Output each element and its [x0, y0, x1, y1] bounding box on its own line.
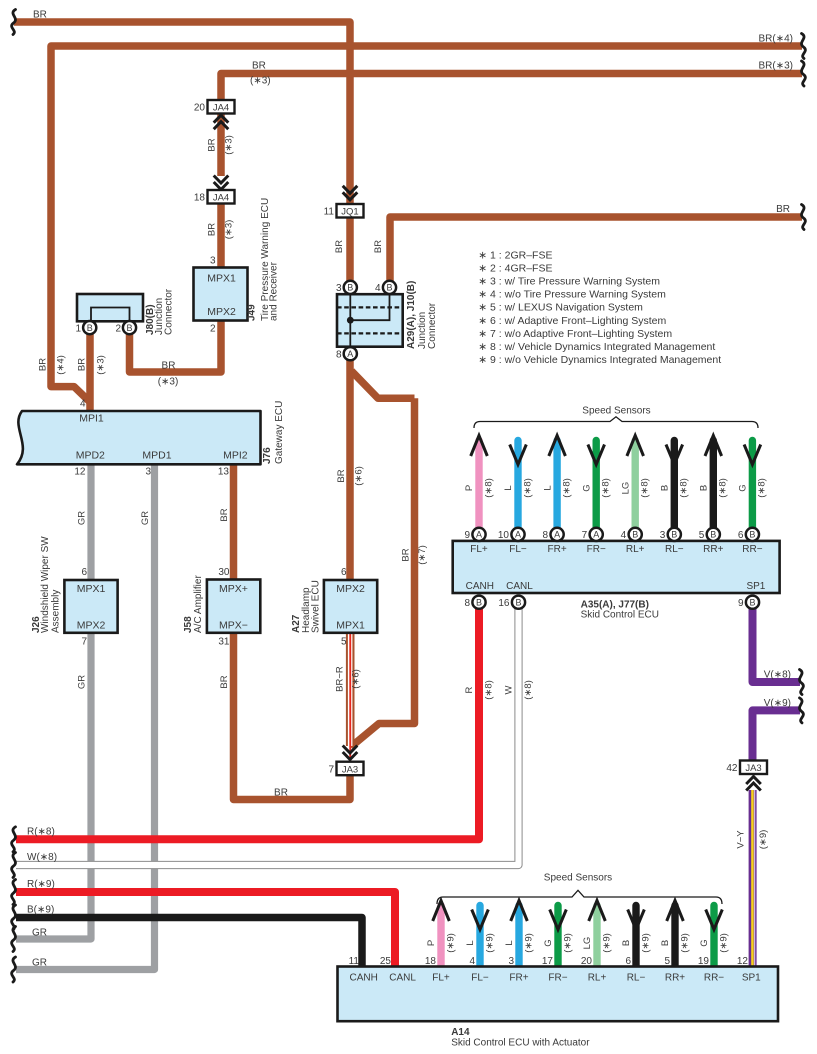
svg-text:Skid Control ECU with Actuator: Skid Control ECU with Actuator — [451, 1037, 590, 1048]
svg-text:(∗9): (∗9) — [640, 933, 651, 953]
svg-text:MPX2: MPX2 — [207, 306, 236, 318]
svg-text:CANL: CANL — [506, 581, 533, 592]
svg-text:B: B — [621, 940, 632, 946]
pin 16(B) CANL of A35 — [512, 596, 525, 609]
junction connector JA4 pin 20 — [194, 100, 235, 114]
ECU A35(A), J77(B) Skid Control ECU box — [453, 541, 780, 593]
svg-text:J76: J76 — [262, 447, 273, 464]
svg-text:R: R — [464, 686, 475, 693]
svg-text:BR: BR — [776, 204, 790, 215]
break symbol BR right — [801, 205, 805, 230]
svg-text:(∗8): (∗8) — [484, 680, 495, 700]
svg-text:JA3: JA3 — [745, 763, 761, 774]
svg-text:(∗3): (∗3) — [96, 355, 107, 375]
svg-text:∗ 1 : 2GR–FSE: ∗ 1 : 2GR–FSE — [478, 249, 552, 261]
break symbol BR top left — [12, 10, 16, 35]
svg-text:GR: GR — [32, 928, 47, 939]
pin 7(A) FR&#8722; of A35 — [590, 528, 603, 541]
speed sensor wire L(*8) FL&#8722; upper — [514, 441, 521, 529]
svg-text:(∗6): (∗6) — [354, 466, 365, 486]
svg-text:8: 8 — [464, 598, 470, 609]
junction connector A29(A), J10(B) — [337, 294, 403, 347]
svg-text:∗ 8 : w/ Vehicle Dynamics Inte: ∗ 8 : w/ Vehicle Dynamics Integrated Man… — [478, 341, 715, 353]
svg-text:(∗9): (∗9) — [601, 933, 612, 953]
svg-text:8: 8 — [336, 349, 342, 360]
svg-text:18: 18 — [425, 956, 437, 967]
svg-text:7: 7 — [81, 636, 87, 647]
wire GR J26-7 down to left break — [16, 632, 91, 939]
svg-text:FL+: FL+ — [470, 544, 488, 555]
pin 9(A) FL+ of A35 — [472, 528, 485, 541]
arrow into JA4-20 — [214, 115, 229, 129]
svg-text:BR: BR — [274, 788, 288, 799]
svg-text:4: 4 — [375, 283, 381, 294]
svg-text:JA3: JA3 — [342, 764, 358, 775]
svg-text:CANH: CANH — [350, 972, 378, 983]
pin 3(B) of A29 — [344, 281, 357, 294]
svg-text:B: B — [126, 323, 132, 333]
svg-text:(∗3): (∗3) — [224, 135, 235, 155]
svg-text:(∗6): (∗6) — [351, 669, 362, 689]
svg-text:(∗4): (∗4) — [56, 355, 67, 375]
svg-text:(∗8): (∗8) — [523, 680, 534, 700]
svg-text:30: 30 — [218, 567, 230, 578]
speed sensor wire B(*9) RR+ lower — [671, 906, 678, 968]
svg-text:P: P — [426, 940, 437, 946]
wire BR J76 MPI2-13 to J58 MPX+30 — [230, 463, 238, 580]
svg-text:1: 1 — [75, 323, 81, 334]
svg-text:18: 18 — [194, 193, 206, 204]
svg-text:∗ 7 : w/o Adaptive Front–Light: ∗ 7 : w/o Adaptive Front–Lighting System — [478, 328, 672, 340]
wire BR(*6) A29 pin 8A to A27 MPX2-6 — [346, 358, 354, 581]
svg-text:17: 17 — [542, 956, 554, 967]
wire V(*8) A35 SP1-9B to right break — [753, 608, 801, 682]
svg-text:(∗8): (∗8) — [561, 478, 572, 498]
svg-text:B: B — [476, 597, 482, 607]
svg-text:B: B — [699, 485, 710, 491]
svg-text:(∗3): (∗3) — [250, 76, 271, 87]
svg-text:(∗7): (∗7) — [417, 545, 428, 565]
svg-text:A: A — [476, 530, 482, 540]
svg-text:20: 20 — [581, 956, 593, 967]
svg-text:BR: BR — [334, 240, 345, 253]
svg-text:9: 9 — [738, 598, 744, 609]
svg-text:(∗9): (∗9) — [445, 933, 456, 953]
svg-text:MPX1: MPX1 — [207, 273, 236, 285]
junction connector JA4 pin 18 — [194, 190, 235, 204]
svg-text:BR: BR — [33, 10, 47, 21]
svg-text:∗ 9 : w/o Vehicle Dynamics Int: ∗ 9 : w/o Vehicle Dynamics Integrated Ma… — [478, 354, 721, 366]
speed sensor wire B(*8) RL&#8722; upper — [671, 441, 678, 529]
svg-text:16: 16 — [498, 598, 510, 609]
speed sensor wire G(*8) FR&#8722; upper — [593, 441, 600, 529]
svg-text:MPI1: MPI1 — [79, 413, 104, 425]
wire BR(*7) branch diagonal — [352, 371, 415, 398]
wire BR J80-1B to J76 MPI1-4 — [86, 333, 94, 412]
svg-text:Speed Sensors: Speed Sensors — [582, 406, 650, 417]
wire R(*8) A35 CANH-8B to left break — [16, 608, 479, 839]
svg-text:MPX+: MPX+ — [219, 583, 248, 595]
wire GR MPD1 J76-3 down to left break — [16, 463, 155, 970]
pin 8(A) of A29 — [344, 347, 357, 360]
break symbol BR(*3) right — [801, 61, 805, 86]
pin 8(A) FR+ of A35 — [551, 528, 564, 541]
svg-text:2: 2 — [210, 323, 216, 334]
break symbol W(*8) left — [12, 853, 16, 878]
svg-text:∗ 6 : w/ Adaptive Front–Lighti: ∗ 6 : w/ Adaptive Front–Lighting System — [478, 315, 666, 327]
svg-text:BR−R: BR−R — [335, 666, 346, 692]
svg-text:BR: BR — [77, 358, 88, 371]
pin 9(B) SP1 of A35 — [746, 596, 759, 609]
svg-text:MPX1: MPX1 — [77, 583, 106, 595]
svg-text:Swivel ECU: Swivel ECU — [310, 580, 321, 633]
svg-text:RR−: RR− — [704, 972, 724, 983]
svg-text:L: L — [504, 940, 515, 945]
svg-text:13: 13 — [218, 466, 230, 477]
svg-text:B: B — [710, 530, 716, 540]
break symbol R(*9) left — [12, 880, 16, 905]
svg-text:V(∗8): V(∗8) — [764, 670, 791, 681]
svg-text:(∗8): (∗8) — [679, 478, 690, 498]
svg-text:A29(A), J10(B): A29(A), J10(B) — [406, 281, 417, 349]
svg-text:11: 11 — [349, 956, 360, 967]
wire BR(*3) J49 MPX2-2 to J80-2B — [130, 319, 222, 372]
junction connector JA3 pin 7 — [328, 762, 363, 776]
wire V-Y(*9) JA3-42 to A14 SP1-12 — [749, 790, 757, 968]
speed sensor wire L(*9) FL&#8722; lower — [476, 906, 483, 968]
svg-text:∗ 2 : 4GR–FSE: ∗ 2 : 4GR–FSE — [478, 262, 552, 274]
wire BR right break to A29 pin 4B — [390, 217, 802, 282]
svg-text:B: B — [749, 597, 755, 607]
svg-text:BR: BR — [162, 361, 176, 372]
svg-text:CANH: CANH — [466, 581, 494, 592]
svg-text:CANL: CANL — [389, 972, 416, 983]
svg-text:SP1: SP1 — [746, 581, 765, 592]
break symbol V(*9) right — [799, 698, 803, 723]
svg-text:5: 5 — [341, 636, 347, 647]
svg-text:GR: GR — [140, 511, 151, 525]
wire R(*9) left break to A14 CANL-25 — [16, 892, 395, 968]
svg-text:JA4: JA4 — [213, 103, 229, 114]
svg-text:BR: BR — [207, 138, 218, 151]
svg-text:MPX−: MPX− — [219, 619, 248, 631]
pin 10(A) FL&#8722; of A35 — [511, 528, 524, 541]
arrow into JQ1-11 — [343, 186, 358, 200]
pin 5(B) RR+ of A35 — [707, 528, 720, 541]
svg-text:BR: BR — [207, 223, 218, 236]
wire BR(*3) JA4-18 to J49 MPX1-3 — [217, 202, 225, 268]
break symbol GR left 2 — [12, 957, 16, 982]
svg-text:Speed Sensors: Speed Sensors — [544, 873, 612, 884]
svg-text:6: 6 — [81, 567, 87, 578]
svg-text:3: 3 — [210, 256, 216, 267]
break symbol R(*8) left — [12, 827, 16, 852]
arrow into JA4-18 — [214, 176, 229, 190]
pin 4(B) of A29 — [383, 281, 396, 294]
svg-text:9: 9 — [464, 530, 470, 541]
svg-text:FL−: FL− — [509, 544, 527, 555]
svg-text:31: 31 — [218, 636, 230, 647]
svg-text:11: 11 — [324, 207, 335, 218]
svg-text:B: B — [671, 530, 677, 540]
wire BR JQ1 to A29 pin 3B — [346, 213, 354, 282]
svg-text:Connector: Connector — [164, 288, 175, 335]
svg-text:7: 7 — [582, 530, 588, 541]
svg-text:B: B — [660, 485, 671, 491]
internal links of A29 — [337, 294, 403, 347]
svg-text:12: 12 — [737, 956, 749, 967]
svg-text:RL+: RL+ — [588, 972, 607, 983]
svg-text:BR: BR — [336, 469, 347, 482]
svg-text:BR: BR — [219, 508, 230, 521]
ECU J49 Tire Pressure Warning ECU and Receiver — [194, 268, 248, 321]
svg-text:MPD1: MPD1 — [142, 449, 171, 461]
ECU J26 Windshield Wiper SW Assembly — [64, 580, 117, 633]
svg-text:A: A — [347, 349, 353, 359]
pin 2(B) of J80(B) — [123, 321, 136, 334]
svg-text:5: 5 — [699, 530, 705, 541]
speed sensor wire G(*8) RR&#8722; upper — [749, 441, 756, 529]
svg-text:V(∗9): V(∗9) — [764, 698, 791, 709]
pin 8(B) CANH of A35 — [472, 596, 485, 609]
ECU J76 Gateway ECU box — [17, 411, 261, 464]
svg-text:RR+: RR+ — [665, 972, 685, 983]
svg-text:(∗9): (∗9) — [484, 933, 495, 953]
svg-text:Connector: Connector — [427, 302, 438, 349]
svg-text:B: B — [749, 530, 755, 540]
svg-text:3: 3 — [508, 956, 514, 967]
svg-text:LG: LG — [620, 482, 631, 495]
svg-text:FR+: FR+ — [509, 972, 528, 983]
pin 6(B) RR&#8722; of A35 — [746, 528, 759, 541]
svg-text:B: B — [386, 283, 392, 293]
svg-text:2: 2 — [115, 323, 121, 334]
svg-text:(∗3): (∗3) — [158, 377, 179, 388]
svg-text:FL−: FL− — [471, 972, 489, 983]
svg-text:4: 4 — [621, 530, 627, 541]
svg-text:and Receiver: and Receiver — [269, 261, 280, 321]
svg-text:(∗8): (∗8) — [757, 478, 768, 498]
svg-text:L: L — [465, 940, 476, 945]
brace speed sensors upper — [474, 417, 758, 428]
svg-text:6: 6 — [625, 956, 631, 967]
svg-text:B: B — [515, 597, 521, 607]
svg-text:W: W — [504, 685, 515, 694]
svg-text:LG: LG — [582, 937, 593, 950]
svg-text:P: P — [464, 485, 475, 491]
svg-text:A: A — [593, 530, 599, 540]
pin 4(B) RL+ of A35 — [629, 528, 642, 541]
wire B(*9) left break to A14 CANH-11 — [16, 918, 362, 969]
speed sensor wire P(*9) FL+ lower — [437, 906, 444, 968]
svg-text:42: 42 — [726, 763, 738, 774]
svg-text:L: L — [542, 485, 553, 490]
svg-text:FR−: FR− — [587, 544, 606, 555]
svg-text:L: L — [503, 485, 514, 490]
ECU J58 A/C Amplifier — [207, 580, 260, 633]
svg-text:8: 8 — [543, 530, 549, 541]
wire BR(*3) between JA4-20 and JA4-18 — [217, 112, 225, 176]
svg-text:JQ1: JQ1 — [341, 207, 358, 218]
svg-text:W(∗8): W(∗8) — [27, 852, 57, 863]
svg-text:V−Y: V−Y — [736, 830, 747, 849]
brace speed sensors lower — [437, 890, 722, 904]
svg-text:B: B — [87, 323, 93, 333]
svg-text:MPX1: MPX1 — [336, 619, 365, 631]
svg-text:Assembly: Assembly — [50, 590, 61, 633]
svg-text:(∗3): (∗3) — [224, 220, 235, 240]
speed sensor wire B(*8) RR+ upper — [710, 441, 717, 529]
svg-text:BR: BR — [401, 548, 412, 561]
svg-text:6: 6 — [738, 530, 744, 541]
svg-text:G: G — [543, 939, 554, 946]
wire BR top from left break to JQ1-11 — [14, 22, 350, 203]
speed sensor wire P(*8) FL+ upper — [475, 441, 482, 529]
svg-text:RL−: RL− — [665, 544, 684, 555]
svg-text:(∗8): (∗8) — [601, 478, 612, 498]
svg-text:BR: BR — [219, 675, 230, 688]
svg-text:6: 6 — [341, 567, 347, 578]
svg-text:Gateway ECU: Gateway ECU — [274, 401, 285, 464]
svg-text:Skid Control ECU: Skid Control ECU — [581, 609, 659, 620]
svg-text:RR+: RR+ — [703, 544, 723, 555]
svg-text:BR: BR — [38, 358, 49, 371]
svg-text:∗ 3 : w/ Tire Pressure Warning: ∗ 3 : w/ Tire Pressure Warning System — [478, 276, 660, 288]
svg-text:∗ 5 : w/ LEXUS Navigation Syst: ∗ 5 : w/ LEXUS Navigation System — [478, 302, 643, 314]
svg-text:GR: GR — [77, 675, 88, 689]
svg-text:RL+: RL+ — [626, 544, 645, 555]
svg-text:(∗8): (∗8) — [718, 478, 729, 498]
svg-text:G: G — [581, 484, 592, 491]
svg-text:FR+: FR+ — [548, 544, 567, 555]
svg-text:FR−: FR− — [548, 972, 567, 983]
svg-text:19: 19 — [698, 956, 710, 967]
svg-text:3: 3 — [336, 283, 342, 294]
svg-text:R(∗9): R(∗9) — [27, 879, 55, 890]
speed sensor wire G(*9) RR&#8722; lower — [710, 906, 717, 968]
svg-text:RL−: RL− — [627, 972, 646, 983]
svg-text:(∗8): (∗8) — [640, 478, 651, 498]
svg-text:BR(∗3): BR(∗3) — [759, 61, 794, 72]
svg-text:B: B — [347, 283, 353, 293]
svg-text:G: G — [699, 939, 710, 946]
svg-text:(∗9): (∗9) — [562, 933, 573, 953]
svg-text:B: B — [660, 940, 671, 946]
svg-text:20: 20 — [194, 103, 206, 114]
wire W(*8) A35 CANL-16B to left break — [16, 608, 519, 865]
speed sensor wire LG(*8) RL+ upper — [632, 441, 639, 529]
arrow into JA3-7 — [343, 746, 358, 760]
wire BR J58 MPX-31 to JA3-7 bottom — [234, 632, 351, 800]
svg-text:4: 4 — [469, 956, 475, 967]
svg-text:7: 7 — [328, 764, 334, 775]
svg-text:MPX2: MPX2 — [336, 583, 365, 595]
junction connector JQ1 pin 11 — [324, 204, 364, 218]
svg-text:MPI2: MPI2 — [223, 449, 248, 461]
svg-text:GR: GR — [32, 958, 47, 969]
ECU A14 Skid Control ECU with Actuator box — [338, 967, 779, 1022]
svg-text:A/C Amplifier: A/C Amplifier — [193, 575, 204, 633]
break symbol V(*8) right — [799, 670, 803, 695]
svg-text:10: 10 — [498, 530, 510, 541]
speed sensor wire G(*9) FR&#8722; lower — [554, 906, 561, 968]
svg-text:BR(∗4): BR(∗4) — [759, 34, 794, 45]
busbar inside J80(B) — [91, 308, 130, 322]
svg-text:(∗9): (∗9) — [758, 830, 769, 850]
svg-text:A: A — [515, 530, 521, 540]
svg-text:12: 12 — [74, 466, 86, 477]
break symbol BR(*4) right — [801, 34, 805, 59]
speed sensor wire L(*9) FR+ lower — [515, 906, 522, 968]
svg-text:BR: BR — [373, 240, 384, 253]
svg-text:(∗8): (∗8) — [483, 478, 494, 498]
svg-text:MPD2: MPD2 — [76, 449, 105, 461]
svg-text:G: G — [738, 484, 749, 491]
svg-text:∗ 4 : w/o Tire Pressure Warnin: ∗ 4 : w/o Tire Pressure Warning System — [478, 289, 666, 301]
svg-text:(∗9): (∗9) — [679, 933, 690, 953]
svg-text:JA4: JA4 — [213, 193, 229, 204]
wire V(*9) right break to JA3-42 — [753, 710, 801, 761]
svg-text:MPX2: MPX2 — [77, 619, 106, 631]
svg-text:A: A — [554, 530, 560, 540]
svg-text:(∗9): (∗9) — [718, 933, 729, 953]
svg-text:5: 5 — [664, 956, 670, 967]
svg-text:BR: BR — [252, 61, 266, 72]
wire BR(*3) right break to JA4-20 — [221, 74, 802, 102]
svg-text:(∗9): (∗9) — [523, 933, 534, 953]
svg-text:4: 4 — [80, 398, 86, 409]
svg-text:B(∗9): B(∗9) — [27, 905, 54, 916]
wire BR-R(*6) A27 MPX1-5 to JA3-7 — [346, 632, 355, 761]
wire GR MPD2 J76-12 to J26-6 — [87, 463, 94, 580]
wire BR(*7) down to JA3-7 — [351, 398, 415, 747]
svg-text:SP1: SP1 — [742, 972, 761, 983]
svg-text:R(∗8): R(∗8) — [27, 826, 55, 837]
svg-text:(∗8): (∗8) — [522, 478, 533, 498]
junction connector J80(B) — [77, 294, 143, 321]
junction connector JA3 pin 42 — [726, 761, 767, 775]
speed sensor wire B(*9) RL&#8722; lower — [632, 906, 639, 968]
svg-text:J49: J49 — [247, 304, 258, 321]
svg-text:RR−: RR− — [742, 544, 762, 555]
speed sensor wire LG(*9) RL+ lower — [593, 906, 600, 968]
ECU A27 Headlamp Swivel ECU — [324, 580, 377, 633]
pin 3(B) RL&#8722; of A35 — [668, 528, 681, 541]
arrow out of JA3-42 — [746, 777, 761, 791]
svg-text:25: 25 — [380, 956, 392, 967]
svg-text:B: B — [632, 530, 638, 540]
wire BR(*4) right break to J76 MPI1-4 merge — [51, 46, 802, 402]
break symbol B(*9) left — [12, 905, 16, 930]
svg-text:3: 3 — [145, 466, 151, 477]
svg-text:FL+: FL+ — [432, 972, 450, 983]
pin 1(B) of J80(B) — [83, 321, 96, 334]
speed sensor wire L(*8) FR+ upper — [553, 441, 560, 529]
break symbol GR left 1 — [12, 927, 16, 952]
svg-text:GR: GR — [77, 511, 88, 525]
svg-text:3: 3 — [660, 530, 666, 541]
